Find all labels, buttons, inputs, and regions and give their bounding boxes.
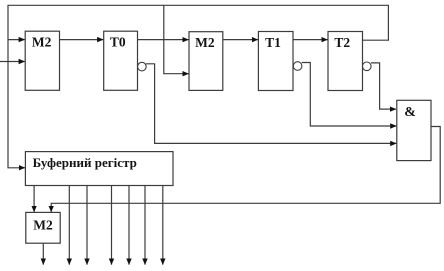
- wire M2 U1 output to T0 input: [60, 39, 104, 41]
- svg-text:Т1: Т1: [265, 35, 281, 50]
- trigger T1: [258, 32, 293, 91]
- wire T1 output to T2 input: [293, 39, 328, 41]
- wire buffer register output bit 5: [144, 184, 146, 265]
- wire buffer register output bit 2: [86, 184, 88, 265]
- svg-text:М2: М2: [195, 35, 215, 50]
- svg-text:М2: М2: [32, 35, 52, 50]
- wire buffer register output bit 6: [162, 184, 164, 265]
- inversion bubble on T0 output: [138, 62, 147, 71]
- wire T2 inverted output to AND gate input 1: [371, 63, 396, 109]
- trigger T2: [328, 32, 363, 91]
- wire M2 U2 output to T1 input: [223, 39, 258, 41]
- inversion bubble on T1 output: [293, 62, 302, 71]
- wire branch into M2 U1 input 1: [8, 39, 25, 41]
- wire AND gate output feedback down right side and left to bottom M2 input 2: [51, 127, 440, 212]
- trigger T0: [104, 31, 138, 90]
- svg-text:М2: М2: [33, 217, 53, 232]
- svg-text:&: &: [404, 105, 416, 120]
- wire T0 inverted output to AND gate input 3: [146, 64, 396, 144]
- modulo-2 adder M2 U1: [25, 31, 59, 90]
- wire T0 output to M2 U2 input 1: [138, 39, 189, 41]
- wire buffer register output bit 1: [68, 184, 70, 265]
- wire bottom M2 output: [42, 243, 44, 264]
- inversion bubble on T2 output: [363, 62, 372, 71]
- wire branch from top line down to M2 U2 input 2: [164, 5, 189, 73]
- svg-text:Т0: Т0: [110, 35, 126, 50]
- wire feedback loop from T2 output along top to M2 first input and buffer register input: [8, 5, 388, 168]
- AND gate U3: [397, 100, 431, 160]
- svg-text:Буферний регістр: Буферний регістр: [33, 155, 137, 170]
- wire T1 inverted output to AND gate input 2: [302, 63, 397, 127]
- svg-text:Т2: Т2: [334, 35, 350, 50]
- wire buffer register output bit 0 to bottom M2 input 1: [33, 184, 35, 212]
- buffer register: [25, 152, 173, 186]
- wire buffer register output bit 4: [128, 184, 130, 265]
- modulo-2 adder M2 U2: [189, 32, 223, 91]
- wire external input into M2 U1 input 2: [0, 61, 25, 63]
- wire buffer register output bit 3: [111, 184, 113, 265]
- modulo-2 adder M2 U4 bottom: [26, 212, 60, 243]
